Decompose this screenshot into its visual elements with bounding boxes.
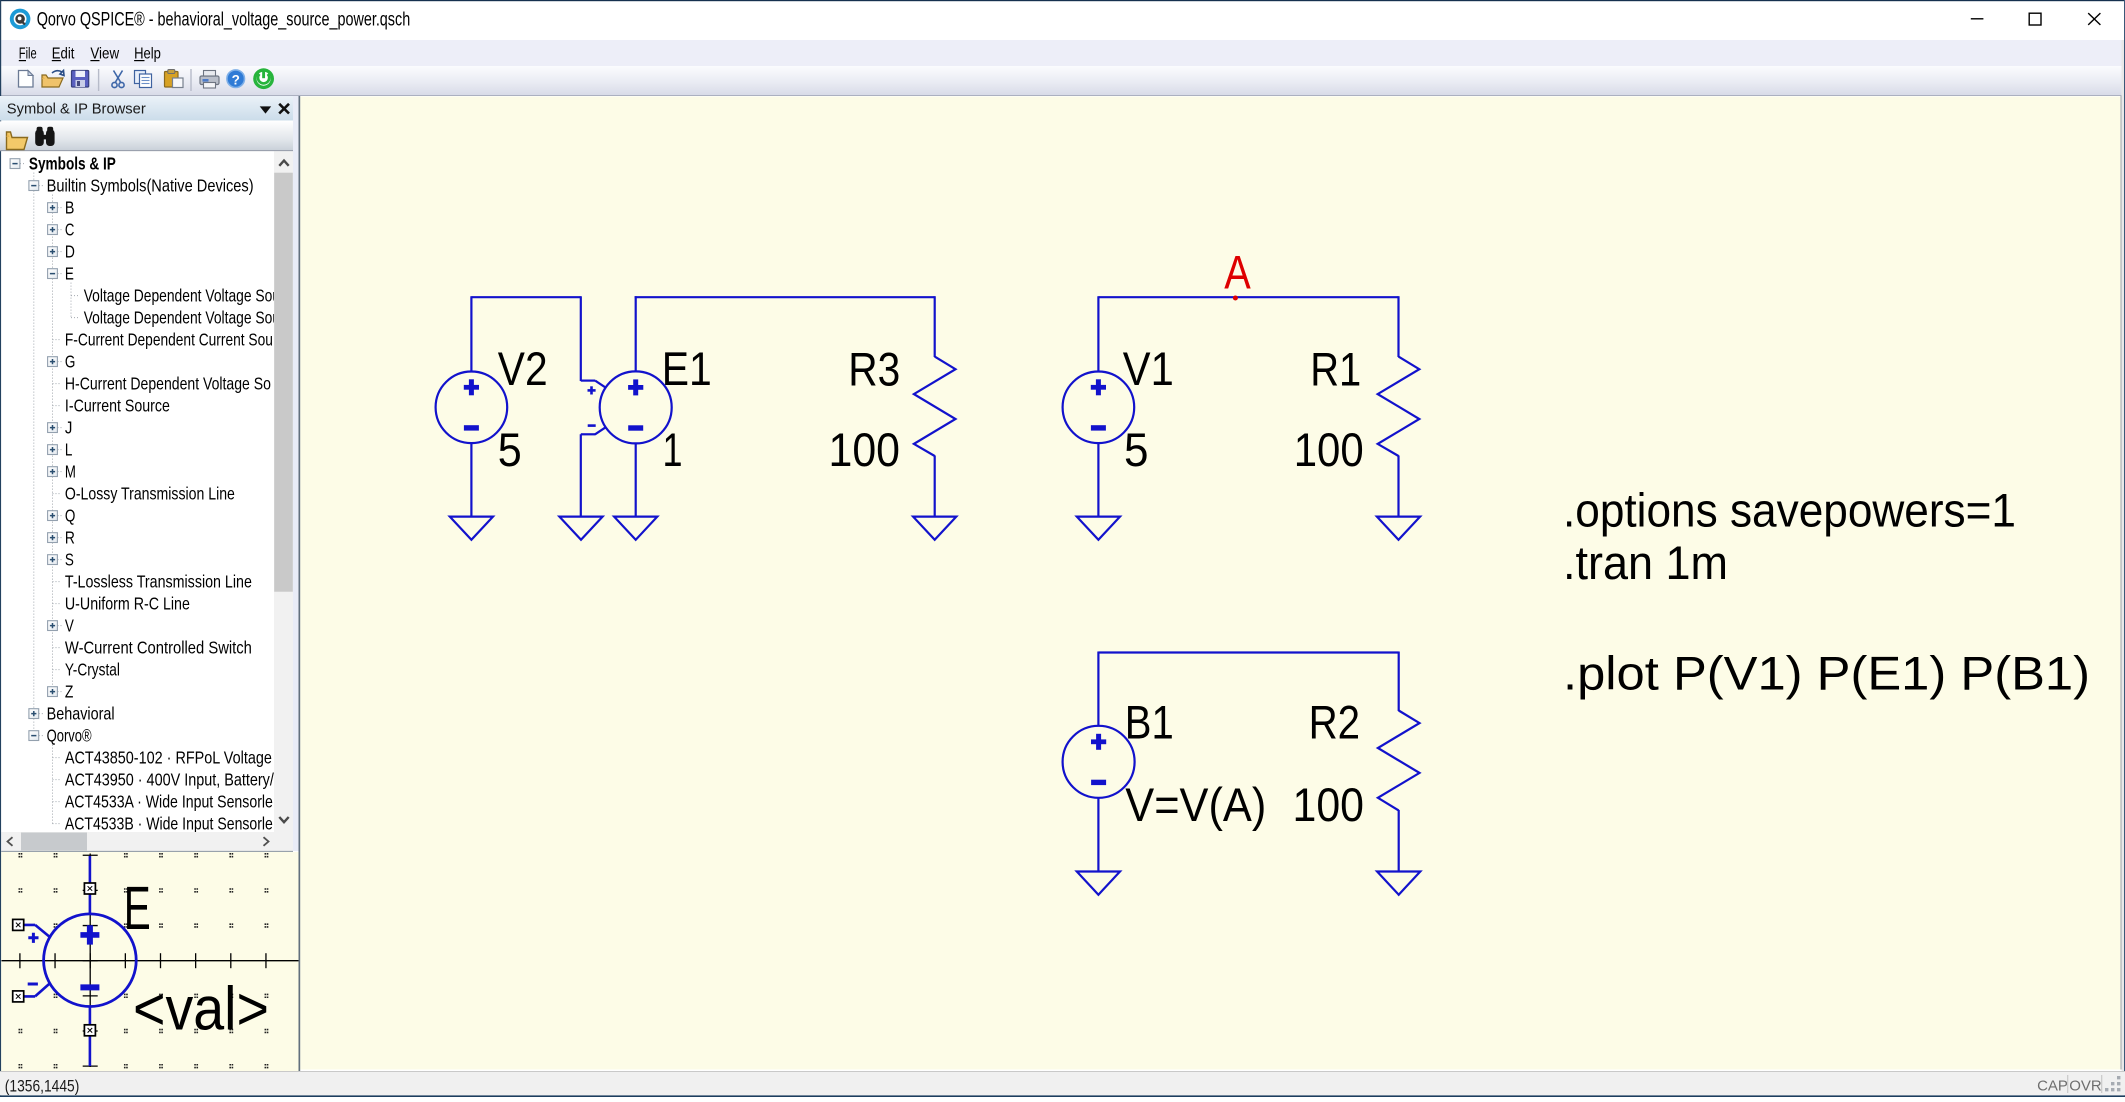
svg-text:.options savepowers=1: .options savepowers=1 (1563, 484, 2016, 537)
svg-text:W-Current Controlled Switch: W-Current Controlled Switch (65, 637, 252, 657)
svg-text:S: S (65, 549, 74, 569)
svg-text:Behavioral: Behavioral (47, 703, 115, 723)
svg-text:E1: E1 (662, 342, 712, 395)
wire: R3 top vertical (934, 296, 936, 357)
svg-text:O-Lossy Transmission Line: O-Lossy Transmission Line (65, 483, 235, 503)
svg-text:J: J (65, 417, 73, 437)
svg-text:ACT43850-102 · RFPoL Voltage: ACT43850-102 · RFPoL Voltage (65, 747, 272, 767)
svg-text:Qorvo®: Qorvo® (47, 725, 92, 745)
svg-text:M: M (65, 461, 76, 481)
ground at E1 minus control (559, 517, 602, 540)
toolbar separators (98, 69, 100, 91)
vertical scrollbar (274, 151, 293, 832)
svg-text:Symbols & IP: Symbols & IP (29, 153, 116, 173)
svg-text:B1: B1 (1125, 696, 1174, 749)
wire: V1 to R1 top horizontal (net A) (1098, 296, 1398, 298)
voltage source V2 (436, 372, 508, 444)
svg-text:100: 100 (1294, 423, 1364, 476)
wire: E1 - control pin stub (581, 433, 596, 435)
svg-text:5: 5 (1124, 423, 1149, 476)
svg-text:V1: V1 (1123, 342, 1174, 395)
icon: new document (19, 71, 34, 88)
svg-text:R: R (65, 527, 75, 547)
svg-text:?: ? (232, 72, 240, 87)
ground at R2 (1377, 872, 1420, 895)
svg-text:Q: Q (65, 505, 76, 525)
svg-text:R1: R1 (1310, 342, 1361, 395)
icon: help (227, 70, 245, 88)
svg-text:R2: R2 (1309, 696, 1361, 749)
resistor R2 (1378, 711, 1420, 811)
icon: copy (135, 71, 152, 88)
svg-text:1: 1 (663, 423, 683, 476)
svg-text:L: L (65, 439, 73, 459)
wire: R3 bottom to ground (934, 456, 936, 518)
wire: R1 top vertical (1397, 296, 1399, 357)
symbol tree (10, 153, 285, 833)
svg-text:ACT4533A · Wide Input Sensorle: ACT4533A · Wide Input Sensorle (65, 791, 273, 811)
schematic canvas (300, 97, 2120, 1070)
ground at R3 (913, 517, 956, 540)
svg-text:ACT4533B · Wide Input Sensorle: ACT4533B · Wide Input Sensorle (65, 813, 273, 833)
svg-text:A: A (1224, 245, 1251, 298)
svg-text:H-Current Dependent Voltage So: H-Current Dependent Voltage So (65, 373, 271, 393)
window borders (0, 0, 2125, 1)
behavioral source B1 (1063, 726, 1135, 798)
E1 control + pin mark (588, 389, 596, 392)
svg-text:Voltage Dependent Voltage Sour: Voltage Dependent Voltage Sour (84, 285, 285, 305)
wire: V1 bottom to ground (1097, 443, 1099, 517)
ground at V2 (450, 517, 493, 540)
resistor R3 (914, 357, 956, 456)
svg-text:File: File (19, 45, 37, 62)
svg-text:Qorvo QSPICE® - behavioral_v: Qorvo QSPICE® - behavioral_voltage_sourc… (37, 9, 411, 30)
wire: B1 to R2 top horizontal (1098, 651, 1398, 653)
node A junction dot (1233, 296, 1238, 301)
svg-text:Z: Z (65, 681, 74, 701)
wire: R2 bottom to ground (1398, 810, 1400, 872)
wire: V1 top vertical (1097, 296, 1099, 372)
svg-text:Edit: Edit (52, 45, 75, 62)
svg-text:Symbol & IP Browser: Symbol & IP Browser (7, 101, 146, 118)
voltage source V1 (1063, 372, 1135, 444)
svg-text:.plot P(V1) P(E1) P(B1): .plot P(V1) P(E1) P(B1) (1563, 647, 2090, 700)
wire: E1 + control pin stub (581, 380, 595, 382)
svg-text:100: 100 (1293, 778, 1365, 831)
svg-text:B: B (65, 197, 75, 217)
icon: paste (165, 70, 184, 88)
window buttons (1971, 18, 1984, 20)
panel toolbar (0, 121, 293, 150)
ground at E1 (614, 517, 657, 540)
panel header (0, 96, 293, 121)
horizontal scrollbar (1, 832, 293, 851)
wire: E1 bottom to ground (635, 443, 637, 517)
svg-text:Y-Crystal: Y-Crystal (65, 659, 120, 679)
svg-text:U-Uniform R-C Line: U-Uniform R-C Line (65, 593, 190, 613)
svg-text:View: View (90, 45, 119, 62)
svg-text:<val>: <val> (133, 975, 269, 1043)
svg-text:E: E (124, 874, 151, 942)
svg-text:Builtin Symbols(Native Devices: Builtin Symbols(Native Devices) (47, 175, 254, 195)
app logo (10, 9, 31, 30)
svg-text:C: C (65, 219, 75, 239)
svg-text:I-Current Source: I-Current Source (65, 395, 170, 415)
icon: run power (253, 68, 274, 89)
svg-text:F-Current Dependent Current So: F-Current Dependent Current Sou (65, 329, 273, 349)
wire: R2 top vertical (1398, 652, 1400, 712)
menu bar (0, 40, 2125, 66)
svg-text:(1356,1445): (1356,1445) (5, 1076, 80, 1095)
svg-text:CAP: CAP (2037, 1078, 2068, 1095)
wire: B1 bottom to ground (1097, 798, 1099, 872)
wire: E1 + control diagonal lead (595, 381, 606, 388)
svg-text:V=V(A): V=V(A) (1125, 778, 1266, 831)
tree area bg (1, 151, 274, 832)
icon: save floppy (72, 71, 89, 88)
svg-text:Help: Help (134, 45, 161, 62)
svg-text:V: V (65, 615, 74, 635)
E1 control - pin mark (588, 424, 596, 427)
wire: E1 output top vertical (635, 296, 637, 372)
wire: V2 top vertical (470, 296, 472, 372)
wire: down to E1 + control pin (580, 296, 582, 381)
resistor R1 (1378, 357, 1420, 456)
ground at R1 (1377, 517, 1420, 540)
svg-text:Voltage Dependent Voltage Sour: Voltage Dependent Voltage Sour (84, 307, 285, 327)
svg-text:OVR: OVR (2069, 1078, 2102, 1095)
dependent source E1 (600, 371, 672, 443)
ground at V1 (1077, 517, 1120, 540)
icon: print (200, 71, 219, 89)
icon: binoculars (35, 127, 54, 146)
svg-text:V2: V2 (498, 342, 548, 395)
wire: V2 bottom to ground (470, 443, 472, 517)
icon: cut scissors (112, 71, 124, 88)
wire: E1 - control down to ground (580, 434, 582, 517)
symbol preview pane (1, 852, 298, 1071)
svg-text:.tran 1m: .tran 1m (1563, 536, 1728, 589)
wire: V2 top to E1 control horizontal (471, 296, 580, 298)
svg-text:G: G (65, 351, 76, 371)
svg-text:E: E (65, 263, 74, 283)
wire: R1 bottom to ground (1397, 456, 1399, 518)
svg-text:100: 100 (829, 423, 901, 476)
ground at B1 (1077, 872, 1120, 895)
svg-text:5: 5 (498, 423, 522, 476)
svg-text:R3: R3 (848, 342, 900, 395)
icon: panel open folder (7, 132, 28, 150)
wire: E1 - control diagonal lead (595, 427, 606, 434)
icon: open folder (42, 71, 64, 88)
svg-text:D: D (65, 241, 75, 261)
toolbar (0, 66, 2125, 96)
wire: E1 to R3 horizontal (635, 296, 935, 298)
svg-text:ACT43950 · 400V Input, Battery: ACT43950 · 400V Input, Battery/ (65, 769, 274, 789)
status bar (0, 1072, 2125, 1096)
svg-text:T-Lossless Transmission Line: T-Lossless Transmission Line (65, 571, 252, 591)
wire: B1 top vertical (1097, 652, 1099, 727)
resize grip (2105, 1076, 2120, 1091)
